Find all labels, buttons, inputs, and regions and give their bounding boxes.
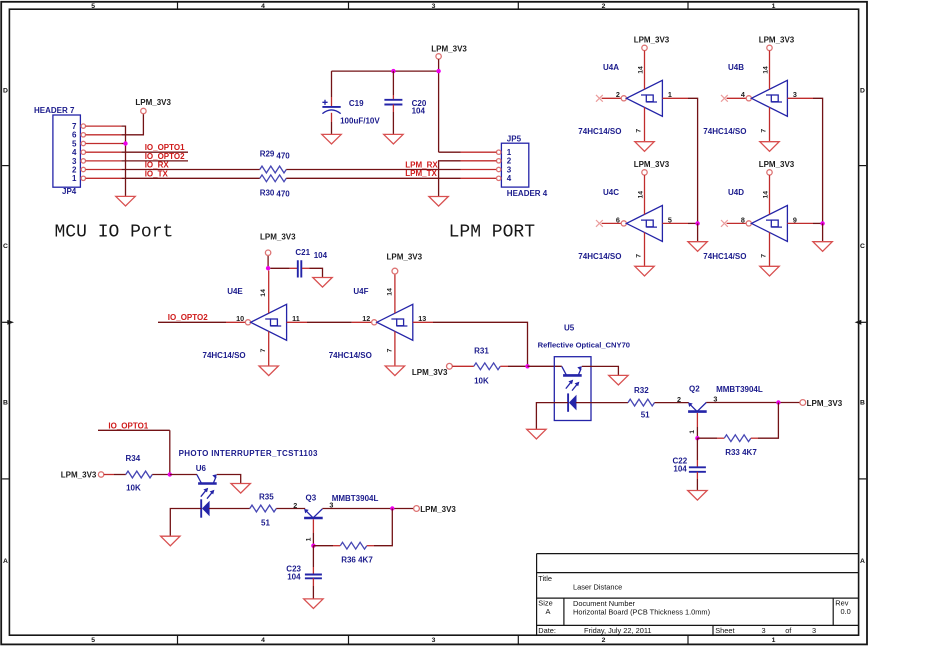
svg-text:MMBT3904L: MMBT3904L: [716, 385, 763, 394]
wire U6 LED cathode to ground: [170, 509, 201, 537]
inverter U4D pin 14 VCC: [769, 175, 771, 214]
svg-text:B: B: [860, 400, 865, 407]
svg-text:IO_OPTO1: IO_OPTO1: [108, 421, 148, 430]
svg-text:470: 470: [276, 152, 290, 161]
resistor R30: [260, 175, 286, 182]
border center arrow left: [2, 321, 8, 323]
svg-text:12: 12: [362, 314, 370, 323]
svg-text:LPM_3V3: LPM_3V3: [135, 98, 171, 107]
svg-text:PHOTO INTERRUPTER_TCST1103: PHOTO INTERRUPTER_TCST1103: [179, 449, 318, 458]
resistor R34 left lead: [104, 474, 114, 476]
wire R34 to U6: [170, 474, 197, 476]
ground U4A pin7: [635, 142, 654, 152]
svg-text:1: 1: [689, 430, 696, 434]
wire IO_TX: [121, 177, 259, 179]
inverter U4D pin 7 GND: [769, 232, 771, 266]
inverter U4C body 74HC14: [621, 221, 626, 226]
resistor R34: [126, 471, 152, 478]
svg-text:LPM_3V3: LPM_3V3: [759, 36, 795, 45]
connector JP5 pin2 wire: [461, 160, 497, 162]
svg-text:of: of: [785, 626, 792, 635]
transistor Q3 body: [304, 509, 323, 518]
wire junction to C21: [270, 267, 289, 269]
svg-text:51: 51: [641, 411, 650, 420]
ground U6 phototransistor: [231, 484, 250, 494]
svg-text:5: 5: [91, 637, 95, 644]
power LPM_3V3 JP4 circle: [141, 108, 146, 113]
ground C22: [688, 491, 707, 501]
wire R35 to Q3: [276, 508, 305, 510]
transistor Q2 base lead: [696, 413, 698, 427]
ground U5 LED: [527, 429, 546, 439]
svg-text:4: 4: [507, 174, 512, 183]
svg-text:LPM_3V3: LPM_3V3: [431, 44, 467, 53]
power LPM_3V3 R34 circle: [98, 472, 103, 477]
resistor R36 right lead: [367, 545, 374, 547]
svg-text:104: 104: [673, 465, 687, 474]
svg-text:51: 51: [261, 518, 270, 527]
svg-text:LPM PORT: LPM PORT: [449, 222, 536, 242]
wire LPM_3V3 vertical: [438, 59, 440, 152]
optocoupler U5 body: [554, 357, 591, 421]
capacitor C19 top lead: [331, 71, 333, 97]
svg-text:7: 7: [260, 348, 267, 352]
ground U4B U4D outputs: [813, 242, 832, 252]
wire LPM_3V3 top rail: [332, 70, 439, 72]
capacitor C19 bottom lead: [331, 113, 333, 122]
ground C20: [384, 134, 403, 144]
capacitor C19 plus sign: [322, 100, 327, 105]
ground U4C pin7: [635, 266, 654, 276]
svg-text:HEADER 4: HEADER 4: [507, 189, 548, 198]
svg-text:2: 2: [602, 637, 606, 644]
junction R31 U4F: [525, 364, 529, 368]
resistor R36: [340, 542, 366, 549]
svg-text:LPM_3V3: LPM_3V3: [260, 233, 296, 242]
ground U4E pin7: [259, 366, 278, 376]
svg-text:2: 2: [72, 165, 77, 174]
no-connect X U4B input: [721, 95, 728, 102]
resistor R31: [474, 363, 500, 370]
svg-text:R31: R31: [474, 347, 489, 356]
capacitor C22 top lead: [696, 438, 698, 460]
optocoupler U6 LED: [201, 499, 209, 517]
wire junction to ground U4C: [697, 223, 699, 241]
wire U4C output: [662, 222, 688, 224]
ground C21: [313, 278, 332, 288]
inverter U4E pin 14 VCC: [268, 271, 270, 314]
wire U4A output: [662, 97, 688, 99]
inverter U4C pin 7 GND: [644, 232, 646, 266]
ground U4A U4C outputs: [688, 242, 707, 252]
svg-text:U4F: U4F: [353, 287, 368, 296]
resistor R29: [260, 166, 286, 173]
svg-text:14: 14: [386, 288, 393, 296]
inverter U4B pin 7 GND: [769, 107, 771, 141]
svg-text:R29: R29: [260, 150, 275, 159]
svg-text:14: 14: [762, 66, 769, 74]
resistor R33 right lead: [751, 437, 758, 439]
svg-text:6: 6: [72, 131, 77, 140]
svg-text:2: 2: [293, 501, 297, 510]
capacitor C23 bottom lead: [312, 578, 314, 586]
inverter U4B pin 14 VCC: [769, 51, 771, 90]
transistor Q3 base lead: [312, 519, 314, 533]
wire U4B output: [787, 97, 813, 99]
resistor R33: [724, 435, 751, 442]
svg-text:Horizontal Board (PCB Thicknes: Horizontal Board (PCB Thickness 1.0mm): [573, 608, 710, 617]
svg-text:U4B: U4B: [728, 63, 744, 72]
svg-text:2: 2: [602, 3, 606, 10]
power LPM_3V3 U4A circle: [642, 45, 647, 50]
svg-text:8: 8: [741, 215, 745, 224]
capacitor C23 top lead: [312, 546, 314, 567]
svg-text:Q3: Q3: [306, 493, 317, 502]
connector JP4 pin end circles: [81, 124, 85, 128]
svg-text:U4C: U4C: [603, 188, 619, 197]
svg-text:HEADER 7: HEADER 7: [34, 106, 75, 115]
svg-text:IO_OPTO2: IO_OPTO2: [145, 152, 185, 161]
svg-text:Date:: Date:: [538, 626, 556, 635]
connector JP5 pin end circles: [497, 150, 501, 154]
svg-text:14: 14: [762, 191, 769, 199]
optocoupler U5 phototransistor: [562, 366, 582, 390]
power LPM_3V3 U4C circle: [642, 170, 647, 175]
capacitor C22 plates: [689, 467, 706, 472]
ground U4B pin7: [760, 142, 779, 152]
svg-text:74HC14/SO: 74HC14/SO: [703, 127, 746, 136]
svg-text:LPM_3V3: LPM_3V3: [807, 399, 843, 408]
svg-text:7: 7: [760, 254, 767, 258]
wire IO_OPTO2 from JP4 pin3: [121, 160, 188, 162]
junction Q3 collector R36: [390, 506, 394, 510]
optocoupler U6 phototransistor: [197, 474, 217, 498]
svg-text:C: C: [3, 243, 8, 250]
svg-text:U4E: U4E: [227, 287, 243, 296]
inverter U4E body 74HC14: [245, 320, 250, 325]
power LPM_3V3 rail circle: [436, 54, 441, 59]
inverter U4F pin 14 VCC: [394, 274, 396, 313]
no-connect X U4D input: [721, 220, 728, 227]
resistor R31 left lead: [452, 365, 474, 367]
junction Q2 base: [695, 436, 699, 440]
junction U4A U4C outputs: [695, 221, 699, 225]
wire IO_OPTO1 from JP4 pin4: [121, 151, 188, 153]
wire Q3 collector to LPM_3V3: [322, 508, 413, 510]
wire U6 LED anode to R35: [209, 508, 250, 510]
power LPM_3V3 U4E circle: [265, 250, 270, 255]
connector JP4 pin stubs: [86, 125, 122, 127]
svg-text:3: 3: [432, 3, 436, 10]
junction R34 IO_OPTO1: [168, 472, 172, 476]
svg-text:U4A: U4A: [603, 63, 619, 72]
inverter U4A pin 14 VCC: [644, 51, 646, 90]
capacitor C20 plates: [384, 100, 402, 105]
svg-text:A: A: [860, 558, 865, 565]
ground U4D pin7: [760, 266, 779, 276]
svg-text:470: 470: [276, 189, 290, 198]
svg-text:Title: Title: [538, 574, 552, 583]
junction JP4 pin5: [123, 141, 127, 145]
wire IO_OPTO2 to U4E: [158, 321, 226, 323]
svg-text:7: 7: [72, 122, 77, 131]
svg-text:Reflective Optical_CNY70: Reflective Optical_CNY70: [538, 341, 630, 350]
inverter U4F body 74HC14: [372, 320, 377, 325]
capacitor C20 bottom lead: [392, 105, 394, 113]
svg-text:0.0: 0.0: [841, 607, 851, 616]
svg-text:100uF/10V: 100uF/10V: [340, 116, 380, 125]
optocoupler U5 LED: [568, 393, 576, 411]
svg-text:4: 4: [72, 148, 77, 157]
svg-text:C: C: [860, 243, 865, 250]
ground U6 LED: [161, 536, 180, 546]
svg-text:B: B: [3, 400, 8, 407]
resistor R34 right lead: [152, 474, 170, 476]
junction Q2 collector R33: [776, 400, 780, 404]
svg-text:3: 3: [812, 626, 816, 635]
svg-text:1: 1: [305, 537, 312, 541]
svg-text:14: 14: [260, 289, 267, 297]
svg-text:14: 14: [637, 191, 644, 199]
svg-text:IO_OPTO1: IO_OPTO1: [145, 143, 185, 152]
svg-text:74HC14/SO: 74HC14/SO: [329, 351, 372, 360]
svg-text:R34: R34: [126, 454, 141, 463]
inverter U4D input pin: [727, 222, 747, 224]
wire R31 to U5: [528, 365, 562, 367]
ground U5 phototransistor: [609, 375, 628, 385]
svg-text:14: 14: [637, 66, 644, 74]
junction rail drop: [436, 69, 440, 73]
svg-text:D: D: [860, 88, 865, 95]
wire U5 LED cathode to ground: [536, 403, 568, 430]
inverter U4A pin 7 GND: [644, 107, 646, 141]
svg-text:4: 4: [261, 3, 265, 10]
inverter U4A body 74HC14: [621, 96, 626, 101]
capacitor C21 plates: [298, 260, 302, 277]
wire JP4 pin7 to ground rail: [121, 126, 125, 196]
svg-text:R33 4K7: R33 4K7: [725, 448, 757, 457]
inverter U4C pin 14 VCC: [644, 175, 646, 214]
wire LPM_TX: [286, 177, 460, 179]
svg-text:LPM_3V3: LPM_3V3: [61, 470, 97, 479]
svg-text:R30: R30: [260, 188, 275, 197]
junction U4E VCC C21: [266, 266, 270, 270]
border zone tick marks: [177, 2, 179, 9]
capacitor C22 bottom lead: [696, 472, 698, 479]
svg-text:74HC14/SO: 74HC14/SO: [578, 252, 621, 261]
svg-text:5: 5: [91, 3, 95, 10]
svg-text:Laser Distance: Laser Distance: [573, 582, 622, 591]
svg-text:2: 2: [507, 157, 512, 166]
ground C19: [322, 134, 341, 144]
svg-text:LPM_3V3: LPM_3V3: [634, 160, 670, 169]
svg-text:R36 4K7: R36 4K7: [341, 555, 373, 564]
svg-text:U5: U5: [564, 324, 575, 333]
wire IO_RX: [121, 169, 259, 171]
svg-text:104: 104: [314, 251, 328, 260]
svg-text:74HC14/SO: 74HC14/SO: [703, 252, 746, 261]
svg-text:R35: R35: [259, 493, 274, 502]
ground C23: [304, 599, 323, 609]
capacitor C19 plates: [322, 106, 340, 108]
svg-text:IO_TX: IO_TX: [145, 169, 169, 178]
junction U4B U4D outputs: [820, 221, 824, 225]
svg-text:6: 6: [616, 215, 620, 224]
svg-text:IO_RX: IO_RX: [145, 161, 170, 170]
wire U4F output: [413, 321, 433, 323]
svg-text:3: 3: [762, 626, 766, 635]
resistor R36 left lead: [313, 545, 333, 547]
svg-text:7: 7: [635, 129, 642, 133]
wire U5 LED anode to R32: [576, 402, 628, 404]
connector JP5 body: [501, 143, 528, 187]
resistor R35: [250, 505, 276, 512]
wire junction to ground U4D: [822, 223, 824, 241]
power LPM_3V3 Q3 circle: [414, 506, 420, 512]
wire LPM_RX: [286, 169, 460, 171]
connector JP4 body: [53, 115, 81, 187]
svg-text:LPM_TX: LPM_TX: [405, 169, 437, 178]
svg-text:1: 1: [772, 3, 776, 10]
wire U5 emitter to ground: [582, 366, 619, 375]
power LPM_3V3 U4F circle: [392, 268, 398, 274]
svg-text:104: 104: [412, 107, 426, 116]
svg-text:74HC14/SO: 74HC14/SO: [203, 351, 246, 360]
svg-text:R32: R32: [634, 386, 649, 395]
svg-text:10: 10: [236, 314, 244, 323]
transistor Q2 body: [688, 402, 707, 411]
no-connect X U4C input: [596, 220, 603, 227]
svg-text:MMBT3904L: MMBT3904L: [332, 494, 379, 503]
junction Q3 base: [311, 544, 315, 548]
wire IO_OPTO1 to R34 node: [98, 429, 170, 431]
svg-text:1: 1: [772, 637, 776, 644]
resistor R32: [628, 399, 655, 406]
title block frame: [537, 554, 859, 636]
svg-text:A: A: [3, 558, 8, 565]
capacitor C23 plates: [305, 575, 322, 579]
svg-text:A: A: [546, 607, 551, 616]
power LPM_3V3 U4B circle: [767, 45, 772, 50]
svg-text:Sheet: Sheet: [715, 626, 734, 635]
svg-text:7: 7: [760, 129, 767, 133]
svg-text:3: 3: [507, 165, 512, 174]
wire R32 to Q2: [655, 402, 689, 404]
svg-text:LPM_3V3: LPM_3V3: [412, 368, 448, 377]
svg-text:LPM_RX: LPM_RX: [405, 160, 438, 169]
svg-text:Friday, July 22, 2011: Friday, July 22, 2011: [584, 626, 652, 635]
power LPM_3V3 Q2 circle: [800, 400, 806, 406]
power LPM_3V3 R31 circle: [447, 363, 453, 369]
wire U4D output: [787, 222, 813, 224]
svg-text:JP4: JP4: [62, 187, 77, 196]
junction rail C20: [391, 69, 395, 73]
wire JP4 pin5 stub: [121, 143, 125, 145]
svg-text:LPM_3V3: LPM_3V3: [634, 36, 670, 45]
border center arrow right: [860, 321, 866, 323]
svg-text:LPM_3V3: LPM_3V3: [759, 160, 795, 169]
svg-text:MCU IO Port: MCU IO Port: [55, 222, 174, 242]
svg-text:4: 4: [741, 90, 745, 99]
inverter U4C input pin: [602, 222, 622, 224]
svg-text:U6: U6: [196, 464, 207, 473]
wire U4E VCC to power: [267, 255, 269, 266]
svg-text:7: 7: [635, 254, 642, 258]
svg-text:2: 2: [616, 90, 620, 99]
svg-text:LPM_3V3: LPM_3V3: [420, 505, 456, 514]
svg-text:4: 4: [261, 637, 265, 644]
svg-text:10K: 10K: [126, 483, 141, 492]
svg-text:10K: 10K: [474, 377, 489, 386]
wire U4E output to U4F: [287, 321, 307, 323]
svg-text:104: 104: [287, 572, 301, 581]
svg-text:3: 3: [432, 637, 436, 644]
inverter U4E pin 7 GND: [268, 331, 270, 365]
inverter U4D body 74HC14: [746, 221, 751, 226]
wire U6 emitter to ground: [217, 475, 241, 484]
svg-text:7: 7: [386, 348, 393, 352]
resistor R33 left lead: [697, 437, 717, 439]
svg-text:JP5: JP5: [507, 134, 522, 143]
resistor R31 right lead: [500, 365, 508, 367]
capacitor C21 right lead: [302, 267, 310, 269]
inverter U4A input pin: [602, 97, 622, 99]
ground JP4: [116, 196, 135, 206]
svg-text:C21: C21: [295, 248, 310, 257]
connector JP5 pin1 wire: [439, 151, 461, 153]
svg-text:1: 1: [72, 174, 77, 183]
power LPM_3V3 U4D circle: [767, 170, 772, 175]
wire Q2 collector to LPM_3V3: [706, 402, 799, 404]
capacitor C20 top lead: [392, 71, 394, 95]
inverter U4F pin 7 GND: [394, 331, 396, 365]
svg-text:U4D: U4D: [728, 188, 744, 197]
svg-text:Q2: Q2: [689, 385, 700, 394]
svg-text:LPM_3V3: LPM_3V3: [387, 252, 423, 261]
wire JP4 pin6 to LPM_3V3: [121, 114, 143, 135]
svg-text:D: D: [3, 88, 8, 95]
svg-text:2: 2: [677, 395, 681, 404]
no-connect X U4A input: [596, 95, 603, 102]
svg-text:74HC14/SO: 74HC14/SO: [578, 127, 621, 136]
svg-text:IO_OPTO2: IO_OPTO2: [168, 313, 208, 322]
inverter U4B input pin: [727, 97, 747, 99]
svg-text:C19: C19: [349, 99, 364, 108]
inverter U4B body 74HC14: [746, 96, 751, 101]
ground U4F pin7: [385, 366, 404, 376]
svg-text:5: 5: [72, 139, 77, 148]
ground JP5 pin2: [429, 197, 448, 207]
